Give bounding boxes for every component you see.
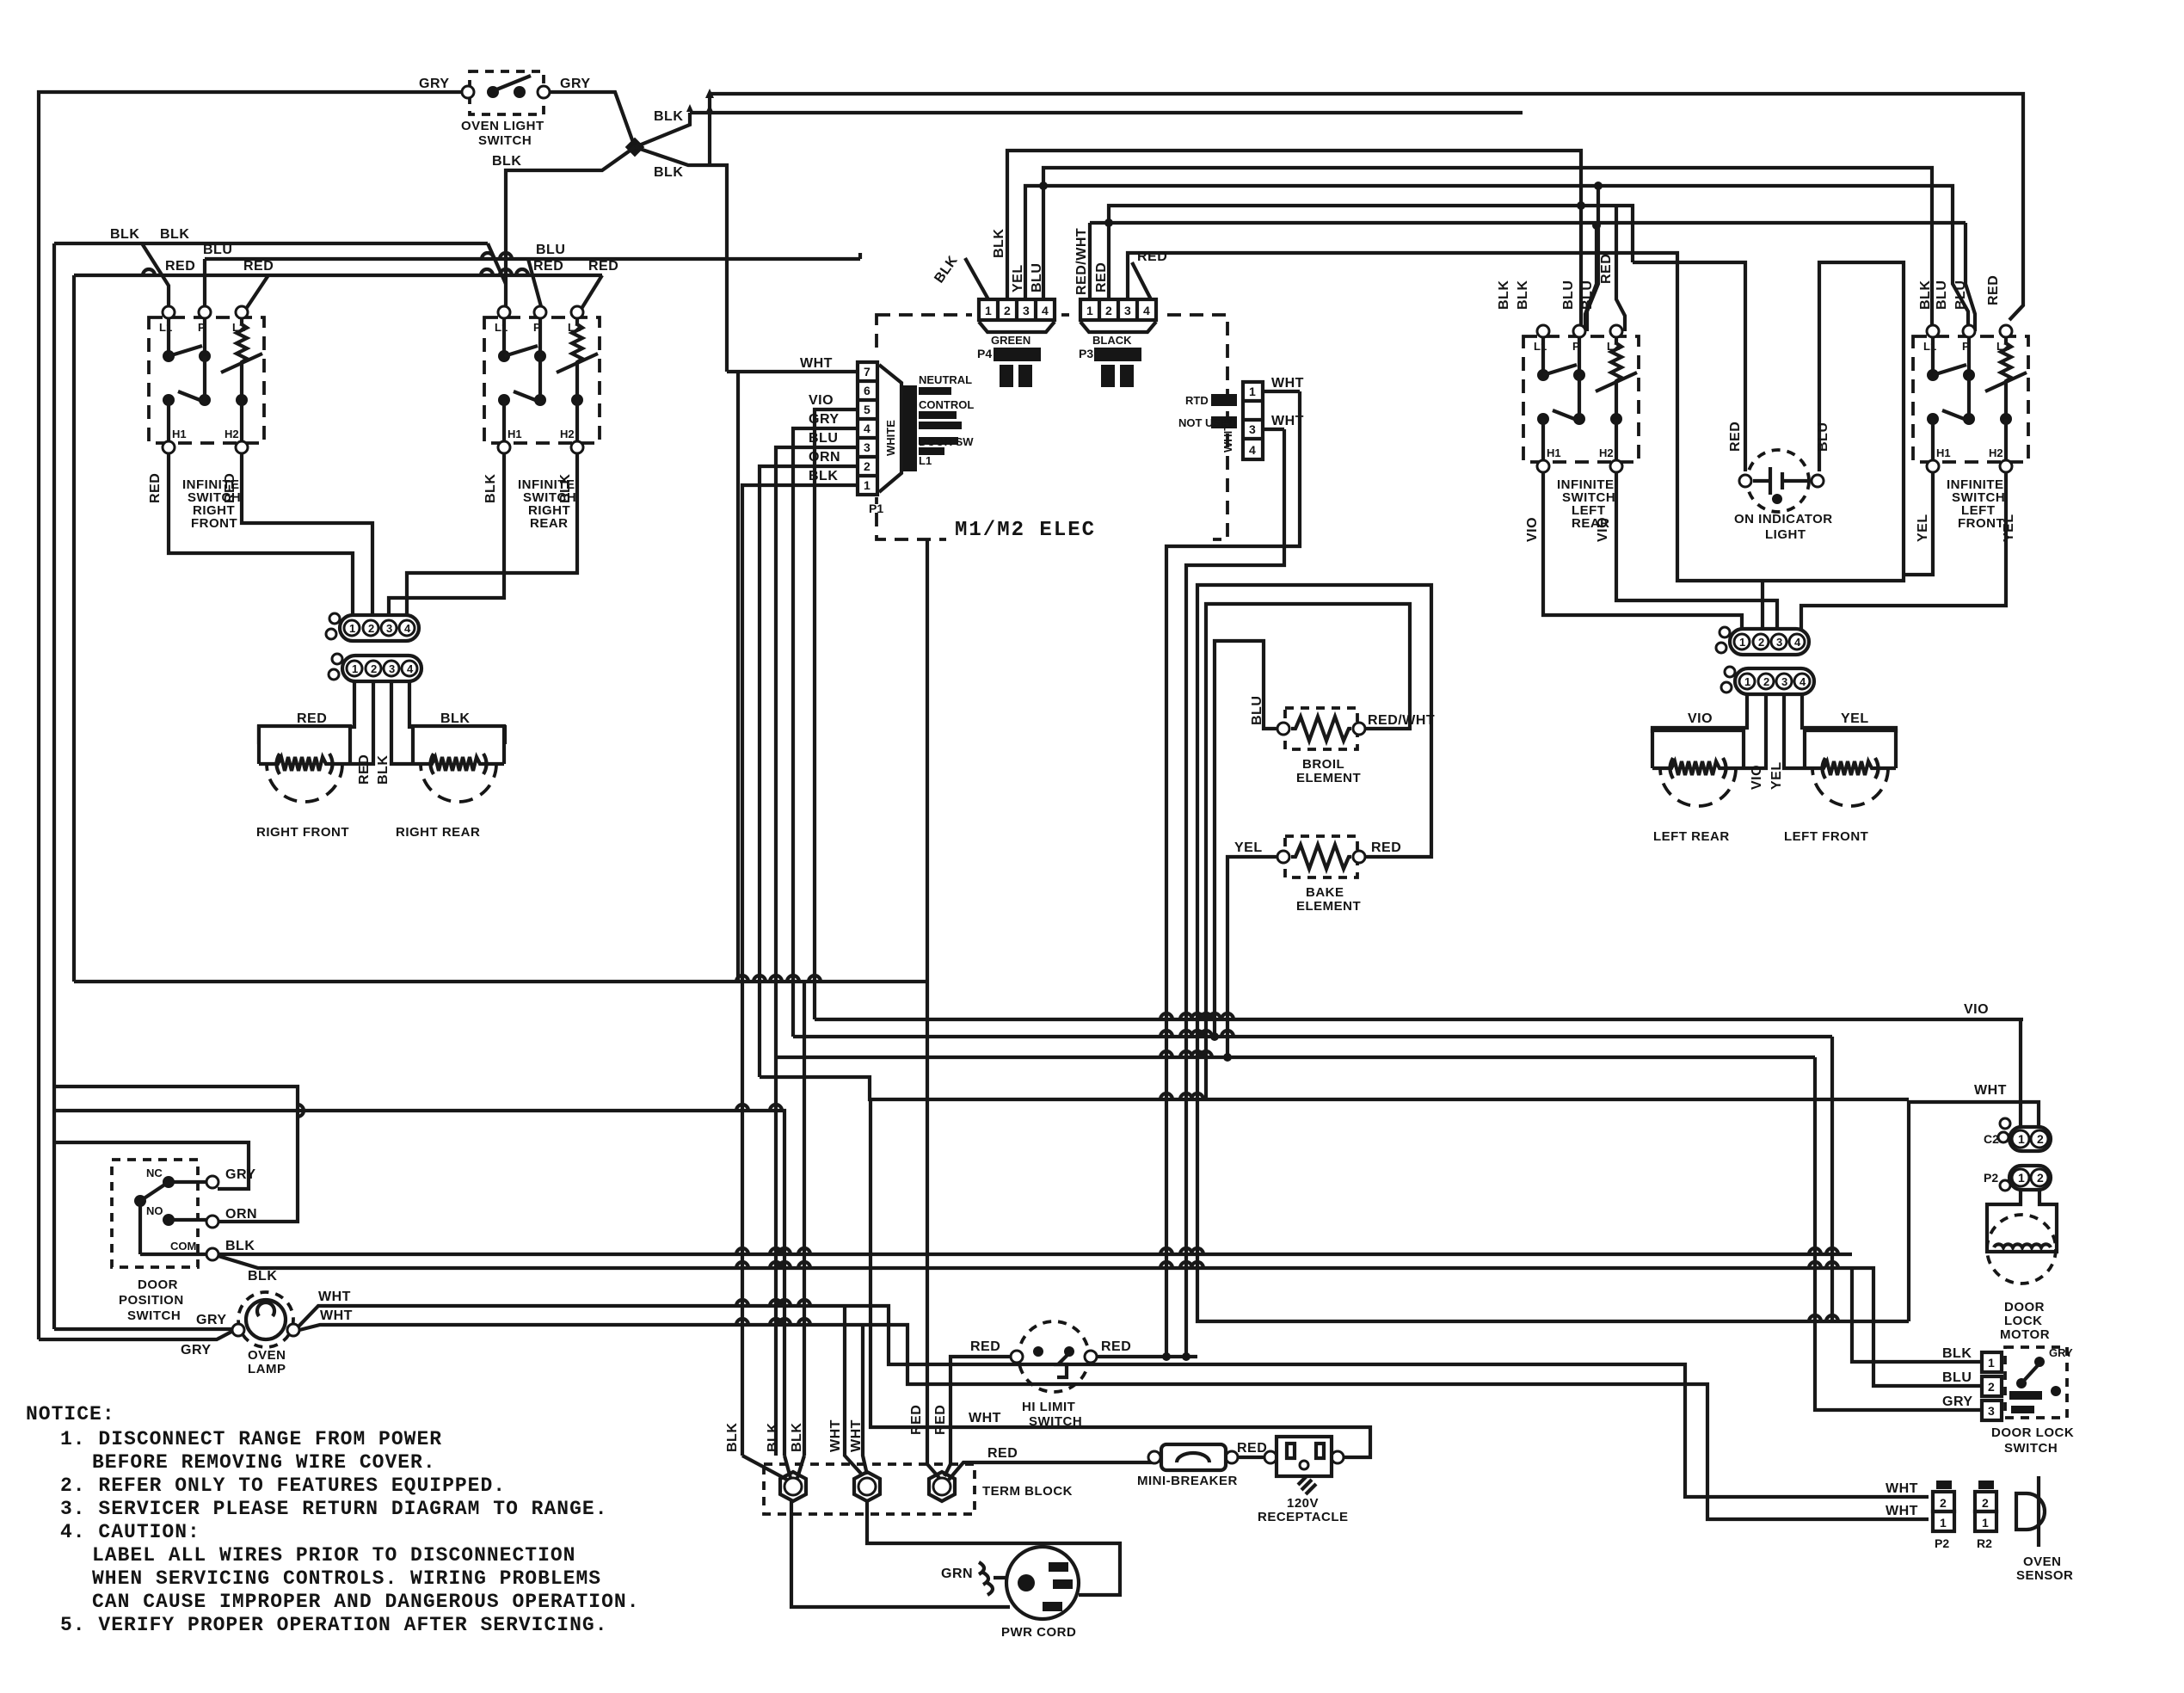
wire WHT drop to term block middle nut a [845, 1306, 862, 1474]
svg-text:GRN: GRN [941, 1567, 973, 1581]
wire feed loop to door position switch [54, 1142, 249, 1189]
svg-text:NC: NC [146, 1167, 163, 1179]
svg-text:LEFT FRONT: LEFT FRONT [1784, 829, 1868, 844]
svg-text:VIO: VIO [809, 393, 834, 408]
power cord prongs [1018, 1574, 1035, 1591]
svg-text:BLK: BLK [440, 711, 470, 726]
door position switch internals [163, 1176, 175, 1188]
120V receptacle [1264, 1437, 1344, 1494]
svg-text:VIO: VIO [1964, 1002, 1989, 1017]
svg-text:GRY: GRY [1942, 1394, 1973, 1409]
svg-text:YEL: YEL [1234, 840, 1263, 855]
svg-text:RED: RED [1728, 422, 1743, 452]
svg-text:OVEN: OVEN [248, 1348, 286, 1363]
P1 connector wedge and pin naming block [879, 365, 974, 492]
arrow riser joining y126 to y109 [708, 94, 711, 108]
wire left rear H2 to right connector pin3 [1616, 471, 1777, 629]
svg-text:R2: R2 [1977, 1536, 1992, 1550]
broil element resistor [1291, 717, 1351, 741]
wire: top bus line 1 to far right then down to L2 of left front switch [710, 94, 2023, 320]
junction dot x1213 y217 [1039, 182, 1048, 190]
arrow riser joining y192 to y126 [708, 113, 711, 165]
svg-text:PWR CORD: PWR CORD [1001, 1625, 1076, 1640]
svg-text:SWITCH: SWITCH [478, 133, 532, 148]
wire BLU diagonal into left rear P [1585, 225, 1596, 329]
junction dots at trio [1162, 1352, 1171, 1361]
door lock motor body [1987, 1190, 2057, 1284]
svg-text:RED: RED [148, 473, 163, 503]
wire trio 3 from bake element red riser to door lock GRY [1197, 585, 1909, 1321]
svg-text:1. DISCONNECT RANGE FROM POWER: 1. DISCONNECT RANGE FROM POWER [60, 1428, 442, 1450]
svg-text:GRY: GRY [225, 1167, 256, 1182]
svg-text:RED: RED [1986, 275, 2001, 305]
svg-text:BLK: BLK [654, 109, 683, 124]
svg-text:FRONT: FRONT [1958, 516, 2004, 531]
svg-text:BLACK: BLACK [1092, 334, 1132, 347]
svg-text:BLK: BLK [1942, 1346, 1972, 1361]
wire: right front H1 down to connector pin1 [169, 453, 353, 615]
svg-text:7: 7 [864, 365, 871, 379]
wire: BLK bus diagonal to right-front switch L1 [142, 243, 169, 310]
wire: BLK bus left drop down left side [52, 243, 56, 1329]
bake element terminals [1277, 851, 1289, 863]
svg-text:1: 1 [1249, 385, 1256, 398]
svg-text:RED: RED [1599, 254, 1614, 284]
wire BLK fan b into nut1 [784, 1456, 791, 1478]
svg-text:3: 3 [1249, 422, 1256, 436]
wire lower connector pin4 to left front element [1802, 695, 1896, 733]
wire WHT return from 120V receptacle [871, 1099, 1370, 1457]
svg-text:RED: RED [1237, 1441, 1267, 1456]
connector P4 strip on board top [972, 296, 1061, 387]
door lock switch internals [2009, 1346, 2073, 1413]
oven lamp terminals [232, 1324, 244, 1336]
wire: RED bus diagonal to L2 right-front [244, 275, 268, 311]
wire YEL from bake down to bus junction [1227, 857, 1277, 1057]
wire trio 2 from P5 pin3 down left [1186, 429, 1284, 1357]
wire BLU into P4 pin4 riser [1043, 168, 1932, 331]
wire lower connector pin1 to left rear element [1652, 695, 1747, 733]
ground squiggle at power cord [979, 1562, 993, 1595]
svg-text:GRY: GRY [809, 412, 840, 427]
svg-text:P1: P1 [869, 502, 883, 515]
svg-text:RED/WHT: RED/WHT [1074, 228, 1089, 295]
infinite switch right front [149, 306, 264, 453]
svg-text:2: 2 [2037, 1132, 2044, 1146]
svg-text:3: 3 [1988, 1404, 1995, 1418]
svg-text:BLU: BLU [1935, 280, 1949, 310]
svg-text:WHT: WHT [1886, 1504, 1918, 1518]
wire: lower connector pin3 down to right rear element resistor [391, 681, 413, 764]
svg-text:BLK: BLK [110, 227, 139, 242]
wire left front H2 to right connector pin4 [1801, 471, 2006, 629]
svg-text:BLK: BLK [766, 1423, 780, 1452]
svg-text:DOOR: DOOR [2004, 1300, 2045, 1314]
junction dot x1289 y258 [1104, 219, 1113, 227]
surface element left rear [1652, 730, 1744, 806]
wire ORN into P1 pin 2 [760, 466, 858, 1077]
oven lamp circle [246, 1300, 286, 1339]
svg-text:VIO: VIO [1688, 711, 1713, 726]
wire lower connector pin2 to left rear element resistor [1744, 695, 1766, 768]
svg-text:RIGHT REAR: RIGHT REAR [396, 825, 480, 840]
wire WHT riser from GRY long run up and into C2 pin2 [1909, 1102, 2039, 1321]
wire left front H1 tee into indicator loop [1904, 471, 1933, 575]
wire: top GRY feed from left border to oven light switch [39, 92, 465, 1339]
svg-text:YEL: YEL [1841, 711, 1869, 726]
svg-text:1: 1 [1086, 304, 1093, 317]
svg-text:CAN CAUSE IMPROPER AND DANGERO: CAN CAUSE IMPROPER AND DANGEROUS OPERATI… [92, 1591, 640, 1613]
svg-text:BLU: BLU [203, 243, 232, 257]
oven lamp dashed halo [238, 1292, 293, 1347]
svg-text:WHEN SERVICING CONTROLS. WIRIN: WHEN SERVICING CONTROLS. WIRING PROBLEMS [92, 1567, 601, 1590]
bake element dashed box [1285, 836, 1357, 877]
svg-text:3: 3 [864, 440, 871, 454]
wire RED into P3 pin3 riser feeding left rear L2 and indicator [1128, 253, 1904, 581]
wire RED/WHT into P3 pin1 riser [1088, 223, 1092, 299]
hops on BLU bus [482, 253, 494, 259]
svg-text:RED: RED [909, 1405, 924, 1435]
junction X crossing dot [625, 138, 645, 157]
svg-text:POSITION: POSITION [119, 1293, 184, 1308]
svg-text:RED: RED [1094, 262, 1109, 292]
wire BLU diag into left front P [1966, 223, 1975, 331]
svg-text:DOOR SW: DOOR SW [919, 435, 974, 448]
surface element right rear [413, 726, 504, 802]
svg-text:WHITE: WHITE [884, 420, 897, 456]
svg-text:VIO: VIO [1750, 765, 1764, 790]
wire: X to upper-right BLK riser joining bus y126 [635, 113, 690, 147]
svg-text:TERM BLOCK: TERM BLOCK [982, 1484, 1073, 1499]
hi limit contacts [1033, 1346, 1043, 1357]
svg-text:WHT: WHT [318, 1290, 351, 1304]
wire WHT into P1 pin 7 [727, 370, 858, 373]
svg-text:3: 3 [1124, 304, 1131, 317]
svg-text:GREEN: GREEN [991, 334, 1030, 347]
wire riser from long run into door lock switch pin3 [1815, 1057, 1982, 1410]
svg-text:LEFT REAR: LEFT REAR [1653, 829, 1730, 844]
wire ORN from door switch up into long bus [54, 1087, 298, 1222]
svg-text:2: 2 [1004, 304, 1011, 317]
svg-text:ELEMENT: ELEMENT [1296, 771, 1361, 785]
svg-text:BLK: BLK [1516, 280, 1530, 310]
connector P lower left block [329, 654, 421, 681]
wire riser from board bottom down to term block right nut [927, 539, 939, 1478]
wire: bus y259 from P3 riser to BLU diag of left front switch P [1090, 221, 1966, 225]
svg-text:LABEL ALL WIRES PRIOR TO DISCO: LABEL ALL WIRES PRIOR TO DISCONNECTION [92, 1544, 576, 1567]
svg-text:5. VERIFY PROPER OPERATION AFT: 5. VERIFY PROPER OPERATION AFTER SERVICI… [60, 1614, 608, 1636]
svg-text:1: 1 [2018, 1132, 2025, 1146]
svg-text:BROIL: BROIL [1302, 757, 1344, 772]
wire WHT from P5 pin3 [1263, 428, 1284, 431]
svg-text:RED: RED [588, 259, 618, 274]
door position switch terminals [206, 1176, 218, 1188]
svg-text:MOTOR: MOTOR [2000, 1327, 2050, 1342]
svg-text:RED: RED [933, 1405, 948, 1435]
svg-text:WHT: WHT [849, 1419, 864, 1452]
term block nut 2 [854, 1472, 880, 1501]
svg-text:GRY: GRY [2049, 1346, 2073, 1359]
wire BLU from broil down to bus junction [1215, 641, 1277, 1037]
wire GRY second from left down-feed to oven lamp [39, 1331, 233, 1339]
svg-text:RED: RED [533, 259, 563, 274]
wire WHT from P5 pin1 [1263, 390, 1300, 393]
oven light switch right terminal [538, 86, 550, 98]
wire: top bus line 2 stepping down to BLK drop of left front switch [690, 111, 1523, 114]
wire BLK fan a into nut1 [742, 1456, 787, 1480]
svg-text:REAR: REAR [530, 516, 569, 531]
svg-text:WHT: WHT [320, 1308, 353, 1323]
wire VIO long run to door lock motor C2 [815, 1018, 2023, 1021]
wire WHT drop to term block middle nut b [863, 1325, 867, 1474]
connector C2 of door lock motor [1984, 1118, 2051, 1151]
connector P2 of door lock motor [1984, 1166, 2051, 1191]
svg-text:RED: RED [165, 259, 195, 274]
wire WHT upper from oven lamp to oven sensor P2 pin2 [298, 1306, 1929, 1497]
svg-text:4: 4 [1249, 443, 1256, 457]
wire: GRY from switch right to X junction [550, 92, 635, 147]
wire squiggle to power cord [994, 1576, 1008, 1579]
wire: BLU bus diagonal to P of right-rear switch [528, 259, 542, 310]
junction dot [1592, 221, 1601, 230]
wire long run to door lock switch pin2 riser [776, 1056, 1815, 1059]
svg-text:BLK: BLK [492, 154, 521, 169]
svg-text:BLK: BLK [809, 469, 838, 483]
wire RED from breaker to receptacle [1238, 1456, 1270, 1459]
door lock switch dashed box [2005, 1347, 2067, 1418]
svg-text:YEL: YEL [1011, 264, 1025, 292]
svg-text:2: 2 [1988, 1380, 1995, 1394]
crossing bumps on door BLK runs [736, 1248, 748, 1254]
svg-text:BLK: BLK [992, 229, 1006, 258]
wire: lower connector pin2 down to right front element resistor [350, 681, 373, 764]
term block nut 1 [780, 1472, 806, 1501]
svg-text:3: 3 [1023, 304, 1030, 317]
hi limit terminals [1011, 1351, 1023, 1363]
wire RED from hi limit right terminal to trio junction [1097, 1355, 1197, 1358]
wire: RED bus left drop [72, 275, 76, 982]
M1/M2 ELEC control board dashed outline [877, 315, 1227, 539]
wire GRY into P1 pin 4 [793, 428, 858, 1037]
svg-text:RIGHT FRONT: RIGHT FRONT [256, 825, 349, 840]
svg-text:FRONT: FRONT [191, 516, 237, 531]
svg-text:P2: P2 [1984, 1171, 1998, 1185]
wire long run RED bus lower horizontal [74, 980, 927, 983]
svg-text:HI LIMIT: HI LIMIT [1022, 1400, 1075, 1414]
infinite switch left rear [1523, 325, 1639, 472]
svg-text:DOOR LOCK: DOOR LOCK [1991, 1425, 2074, 1440]
svg-text:BLU: BLU [1816, 422, 1830, 452]
svg-text:6: 6 [864, 384, 871, 397]
oven light switch contact dots and lever [487, 86, 499, 98]
wire BLK diagonal into P4 pin1 [965, 258, 988, 299]
wire: right rear H1 down-left to connector pin3 [389, 453, 504, 615]
svg-text:WHITE: WHITE [1221, 416, 1234, 452]
svg-text:CONTROL: CONTROL [919, 398, 974, 411]
crossing bumps on GRY run [1809, 1315, 1821, 1321]
RED bus horizontal [74, 274, 602, 277]
wire BLU diag into left rear P [1587, 186, 1598, 331]
svg-text:BLK: BLK [558, 474, 573, 503]
connector P upper left block [326, 613, 419, 641]
crossing bumps on left WHT drop line [736, 1105, 748, 1111]
wire RED from nut3 to mini breaker [949, 1462, 1154, 1480]
svg-text:YEL: YEL [2002, 514, 2016, 542]
svg-text:YEL: YEL [1769, 761, 1784, 790]
svg-text:2: 2 [1982, 1496, 1989, 1510]
svg-text:RED: RED [1371, 840, 1401, 855]
svg-text:OVEN LIGHT: OVEN LIGHT [461, 119, 544, 133]
wire: X down-left BLK to vertical feeding right-rear switch L1 [506, 147, 635, 310]
wire ORN long run jog to WHT door lock motor line [760, 1077, 1909, 1099]
svg-text:RED: RED [970, 1339, 1000, 1354]
wire from term nut1 down to power cord [791, 1501, 1010, 1607]
svg-text:RED: RED [1101, 1339, 1131, 1354]
infinite switch left front [1913, 325, 2028, 472]
svg-text:SWITCH: SWITCH [2004, 1441, 2058, 1456]
wire long run to door lock switch pin1 riser [793, 1035, 1832, 1038]
svg-text:RED: RED [357, 754, 372, 785]
svg-text:ORN: ORN [809, 450, 840, 465]
connector P3 strip on board top [1075, 296, 1165, 387]
wire BLU into P1 pin 3 [776, 447, 858, 1456]
right block upper connector [1716, 627, 1809, 655]
hops on RED bus [143, 269, 155, 275]
svg-text:GRY: GRY [181, 1343, 212, 1357]
svg-text:BLK: BLK [725, 1423, 740, 1452]
wire: X to lower-right BLK short run then drop at x845 [635, 147, 727, 372]
svg-text:1: 1 [1940, 1516, 1947, 1530]
oven sensor bulb [2016, 1476, 2045, 1547]
svg-text:BLK: BLK [654, 165, 683, 180]
wire drop from red bus lower to term block left nut [803, 982, 806, 1456]
ON indicator internal element [1753, 479, 1769, 483]
svg-text:GRY: GRY [419, 77, 450, 91]
power cord circle [1006, 1547, 1079, 1619]
svg-text:BLK: BLK [790, 1423, 804, 1452]
wire RED fan from riser into nut3 [944, 1464, 951, 1476]
svg-text:RED: RED [223, 473, 237, 503]
svg-text:MINI-BREAKER: MINI-BREAKER [1137, 1474, 1238, 1488]
right block lower connector [1721, 667, 1814, 694]
svg-text:3. SERVICER PLEASE RETURN DIAG: 3. SERVICER PLEASE RETURN DIAGRAM TO RAN… [60, 1498, 608, 1520]
svg-text:120V: 120V [1287, 1496, 1319, 1511]
svg-text:ORN: ORN [225, 1207, 257, 1222]
wire left WHT drop from border to term block left nut [54, 1111, 784, 1456]
svg-text:2: 2 [2037, 1171, 2044, 1185]
svg-text:BLU: BLU [1942, 1370, 1972, 1385]
svg-text:P4: P4 [977, 347, 992, 360]
svg-text:ON INDICATOR: ON INDICATOR [1734, 512, 1833, 526]
broil element dashed box [1285, 708, 1357, 749]
svg-text:BLU: BLU [536, 243, 565, 257]
mini breaker body [1148, 1444, 1238, 1470]
wire U bottom tee to right connector pin2 [1761, 581, 1764, 629]
svg-text:4: 4 [1143, 304, 1150, 317]
wire BLK into P1 pin 1 [742, 485, 858, 1456]
svg-text:4. CAUTION:: 4. CAUTION: [60, 1521, 200, 1543]
wire WHT lower from oven lamp to oven sensor P2 pin1 [299, 1325, 1929, 1519]
crossing bumps rows right trio [1160, 1013, 1172, 1019]
caption M1/M2 ELEC [946, 513, 1213, 542]
wire YEL into P4 pin3 riser [1025, 186, 1968, 331]
wire: BLU bus left end down to P of right-front switch [203, 259, 206, 310]
svg-text:VIO: VIO [1525, 517, 1540, 542]
svg-text:BLK: BLK [1497, 280, 1511, 310]
wire: BLU bus right end riser to y258 [858, 253, 862, 259]
svg-text:COM: COM [170, 1240, 196, 1253]
svg-text:1: 1 [1988, 1356, 1995, 1370]
crossing bumps on WHT lamp runs [736, 1300, 748, 1306]
wire VIO into P1 pin 5 [815, 409, 858, 1019]
svg-text:WHT: WHT [800, 356, 833, 371]
connector P1 7-cell strip [856, 353, 883, 515]
svg-text:C2: C2 [1984, 1132, 1999, 1146]
wire: right front H2 down to connector pin2 [242, 453, 372, 615]
svg-text:BLK: BLK [160, 227, 189, 242]
svg-text:BLU: BLU [1030, 263, 1044, 292]
svg-text:WHT: WHT [969, 1411, 1001, 1425]
svg-text:WHT: WHT [828, 1419, 843, 1452]
svg-text:NEUTRAL: NEUTRAL [919, 373, 972, 386]
svg-text:5: 5 [864, 403, 871, 416]
oven light switch dashed box [470, 71, 544, 114]
wire left rear H1 to right connector pin1 [1543, 471, 1742, 629]
svg-text:BEFORE REMOVING WIRE COVER.: BEFORE REMOVING WIRE COVER. [92, 1451, 436, 1474]
oven sensor connector P2 strip [1933, 1481, 1954, 1550]
svg-text:L1: L1 [919, 454, 932, 467]
svg-text:4: 4 [864, 422, 871, 435]
svg-text:ELEMENT: ELEMENT [1296, 899, 1361, 914]
svg-text:BLK: BLK [1918, 280, 1933, 310]
svg-text:RED: RED [297, 711, 327, 726]
wire from term nut2 down to power cord right [867, 1501, 1120, 1595]
wire RED from hi limit left terminal down to nut3 [951, 1357, 1011, 1464]
svg-text:BLK: BLK [248, 1269, 277, 1284]
wire RED diag into left rear L2 from y239 [1616, 206, 1625, 331]
svg-text:1: 1 [2018, 1171, 2025, 1185]
wire riser from door line 1 into door lock switch pin1 [1852, 1267, 1982, 1362]
surface element left front [1805, 730, 1896, 806]
term block nut 3 [929, 1472, 955, 1501]
svg-text:GRY: GRY [196, 1313, 227, 1327]
crossing bumps row y1141 [736, 976, 748, 982]
bake element resistor [1291, 845, 1351, 869]
svg-text:VIO: VIO [1596, 517, 1610, 542]
svg-text:RED/WHT: RED/WHT [1368, 713, 1435, 728]
svg-text:DOOR: DOOR [138, 1277, 178, 1292]
BLU bus horizontal [205, 257, 860, 261]
wire BLK from door switch COM long run to door lock motor P2 pin1 [218, 1253, 1852, 1256]
svg-text:1: 1 [985, 304, 992, 317]
svg-text:RED: RED [987, 1446, 1018, 1461]
svg-text:NO: NO [146, 1204, 163, 1217]
svg-text:WHT: WHT [1886, 1481, 1918, 1496]
connector P5 white strip 4 cells [1178, 379, 1268, 465]
wire BLK fan c into nut1 [797, 1456, 804, 1478]
broil element terminals [1277, 723, 1289, 735]
svg-text:GRY: GRY [560, 77, 591, 91]
hop on ORN riser [298, 1105, 304, 1117]
svg-text:YEL: YEL [1916, 514, 1930, 542]
svg-text:BLK: BLK [376, 755, 391, 785]
svg-text:WHT: WHT [1271, 376, 1304, 391]
door lock switch pin boxes [1982, 1352, 2002, 1420]
svg-text:SENSOR: SENSOR [2016, 1568, 2073, 1583]
wire: lower connector pin4 to right rear element [409, 681, 505, 744]
svg-text:1: 1 [1982, 1516, 1989, 1530]
svg-text:LOCK: LOCK [2004, 1314, 2043, 1328]
